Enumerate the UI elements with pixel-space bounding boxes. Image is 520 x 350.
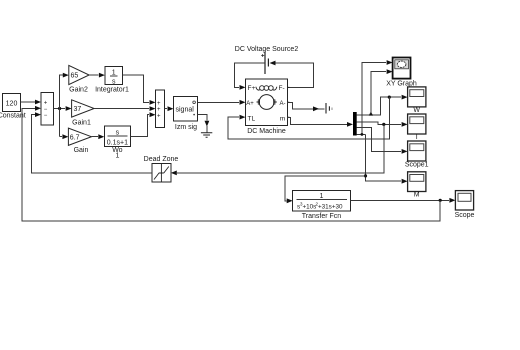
constant block Constant value 120: [0, 94, 26, 120]
wire branch to Transfer Fcn: [285, 176, 366, 203]
svg-text:Transfer Fcn: Transfer Fcn: [302, 213, 342, 220]
svg-text:Dead Zone: Dead Zone: [144, 156, 179, 163]
scope block Scope1: [405, 141, 429, 169]
svg-text:+: +: [157, 107, 161, 113]
svg-text:Scope: Scope: [455, 212, 475, 219]
wire branch to Gain input: [60, 134, 69, 139]
wire Dead Zone output to Sum1 input3: [31, 112, 152, 173]
wire DC Machine m to Demux: [287, 117, 353, 127]
branch arrow up to XY input2: [369, 69, 393, 115]
svg-text:Gain2: Gain2: [69, 87, 88, 94]
svg-text:A+: A+: [246, 101, 254, 107]
controlled voltage source block Izm sig: [174, 96, 198, 131]
field winding coil: [256, 87, 260, 90]
svg-text:120: 120: [6, 101, 18, 108]
wire Sum1 output to Gain1 with branch node: [54, 106, 72, 111]
wire W branch to DC Machine TL: [228, 97, 389, 139]
svg-text:s: s: [112, 79, 116, 86]
dead zone block Dead Zone: [144, 156, 179, 182]
svg-text:1: 1: [115, 153, 119, 160]
wire demux out3 to Scope1: [357, 128, 408, 154]
svg-text:+: +: [157, 101, 161, 107]
ground symbol: [201, 133, 212, 138]
svg-text:+: +: [44, 100, 48, 106]
integrator block Integrator1 1/s: [95, 67, 129, 94]
svg-text:s: s: [116, 129, 120, 136]
wire feedback to Sum1 input2: [22, 106, 440, 221]
wire Izm sig plus to DC Machine A+: [198, 100, 246, 105]
wire Sum2 to signal block: [164, 106, 173, 111]
svg-text:37: 37: [74, 106, 82, 113]
svg-text:65: 65: [71, 73, 79, 80]
svg-text:m: m: [280, 116, 285, 123]
wire Wo to Sum2 input3: [131, 112, 156, 136]
svg-text:Gain: Gain: [74, 147, 89, 154]
wire DC Machine A- to series element: [287, 102, 324, 111]
svg-text:I: I: [416, 134, 418, 141]
gain triangle Gain value 6.7: [68, 128, 91, 154]
demux block: [353, 112, 357, 136]
svg-text:+31s+30: +31s+30: [318, 204, 343, 211]
xy graph block XY Graph: [386, 58, 417, 88]
svg-text:A-: A-: [280, 101, 286, 107]
svg-text:TL: TL: [248, 116, 256, 123]
svg-text:M: M: [414, 191, 420, 198]
wire demux out1 to W line: [357, 95, 408, 115]
scope block W: [408, 87, 426, 114]
gain triangle Gain2 value 65: [69, 65, 89, 93]
wire branch vertical to Gain2 input: [60, 73, 69, 137]
svg-text:W: W: [413, 107, 420, 114]
wire out4 branch down to M scope: [364, 134, 408, 183]
wire Constant to Sum1 input1: [20, 100, 41, 105]
svg-text:Scope1: Scope1: [405, 162, 429, 169]
svg-text:−: −: [44, 107, 48, 113]
wire Integrator1 to Sum2 input1: [123, 75, 156, 105]
scope block Scope: [455, 191, 475, 219]
scope block I: [408, 114, 426, 141]
wire Gain to Wo: [91, 134, 104, 139]
wire demux out4 to XY input1: [357, 60, 393, 136]
wire Gain1 to Sum2 input2: [94, 106, 155, 111]
transfer fcn block Transfer Fcn: [293, 190, 351, 219]
svg-text:Izm sig: Izm sig: [175, 124, 197, 131]
svg-text:0.1s+1: 0.1s+1: [107, 139, 128, 146]
battery series element: [326, 103, 332, 114]
transfer fcn block Wo s/(0.1s+1): [104, 126, 130, 160]
wire battery plus to DC Machine F+: [235, 63, 265, 90]
battery DC Voltage Source2: [235, 46, 299, 74]
scope block M: [408, 172, 426, 199]
svg-text:Gain1: Gain1: [72, 120, 91, 127]
wire Transfer Fcn to Scope with feedback branch: [350, 198, 455, 203]
svg-text:−: −: [44, 113, 48, 119]
dc machine block DC Machine: [246, 79, 290, 135]
svg-text:Integrator1: Integrator1: [95, 87, 129, 94]
wire Gain2 to Integrator1: [89, 73, 105, 78]
svg-text:F+: F+: [248, 85, 256, 92]
armature circle: [259, 95, 274, 110]
wire demux out2 to I scope: [357, 122, 408, 127]
svg-text:DC Voltage Source2: DC Voltage Source2: [235, 46, 299, 53]
svg-text:6.7: 6.7: [70, 134, 80, 141]
wire DC Machine F- to battery minus: [270, 61, 314, 88]
sum block Sum1 signs + - -: [41, 92, 54, 125]
svg-text:+: +: [157, 113, 161, 119]
wire Izm sig minus to ground: [198, 115, 210, 133]
svg-text:+10s: +10s: [303, 204, 317, 211]
svg-text:signal: signal: [176, 107, 195, 114]
gain triangle Gain1 value 37: [72, 100, 95, 127]
wire I branch to Dead Zone: [171, 124, 384, 175]
svg-text:DC Machine: DC Machine: [247, 128, 286, 135]
svg-text:F-: F-: [279, 85, 285, 92]
sum block Sum2 signs + + +: [156, 90, 165, 128]
svg-text:1: 1: [112, 69, 116, 76]
